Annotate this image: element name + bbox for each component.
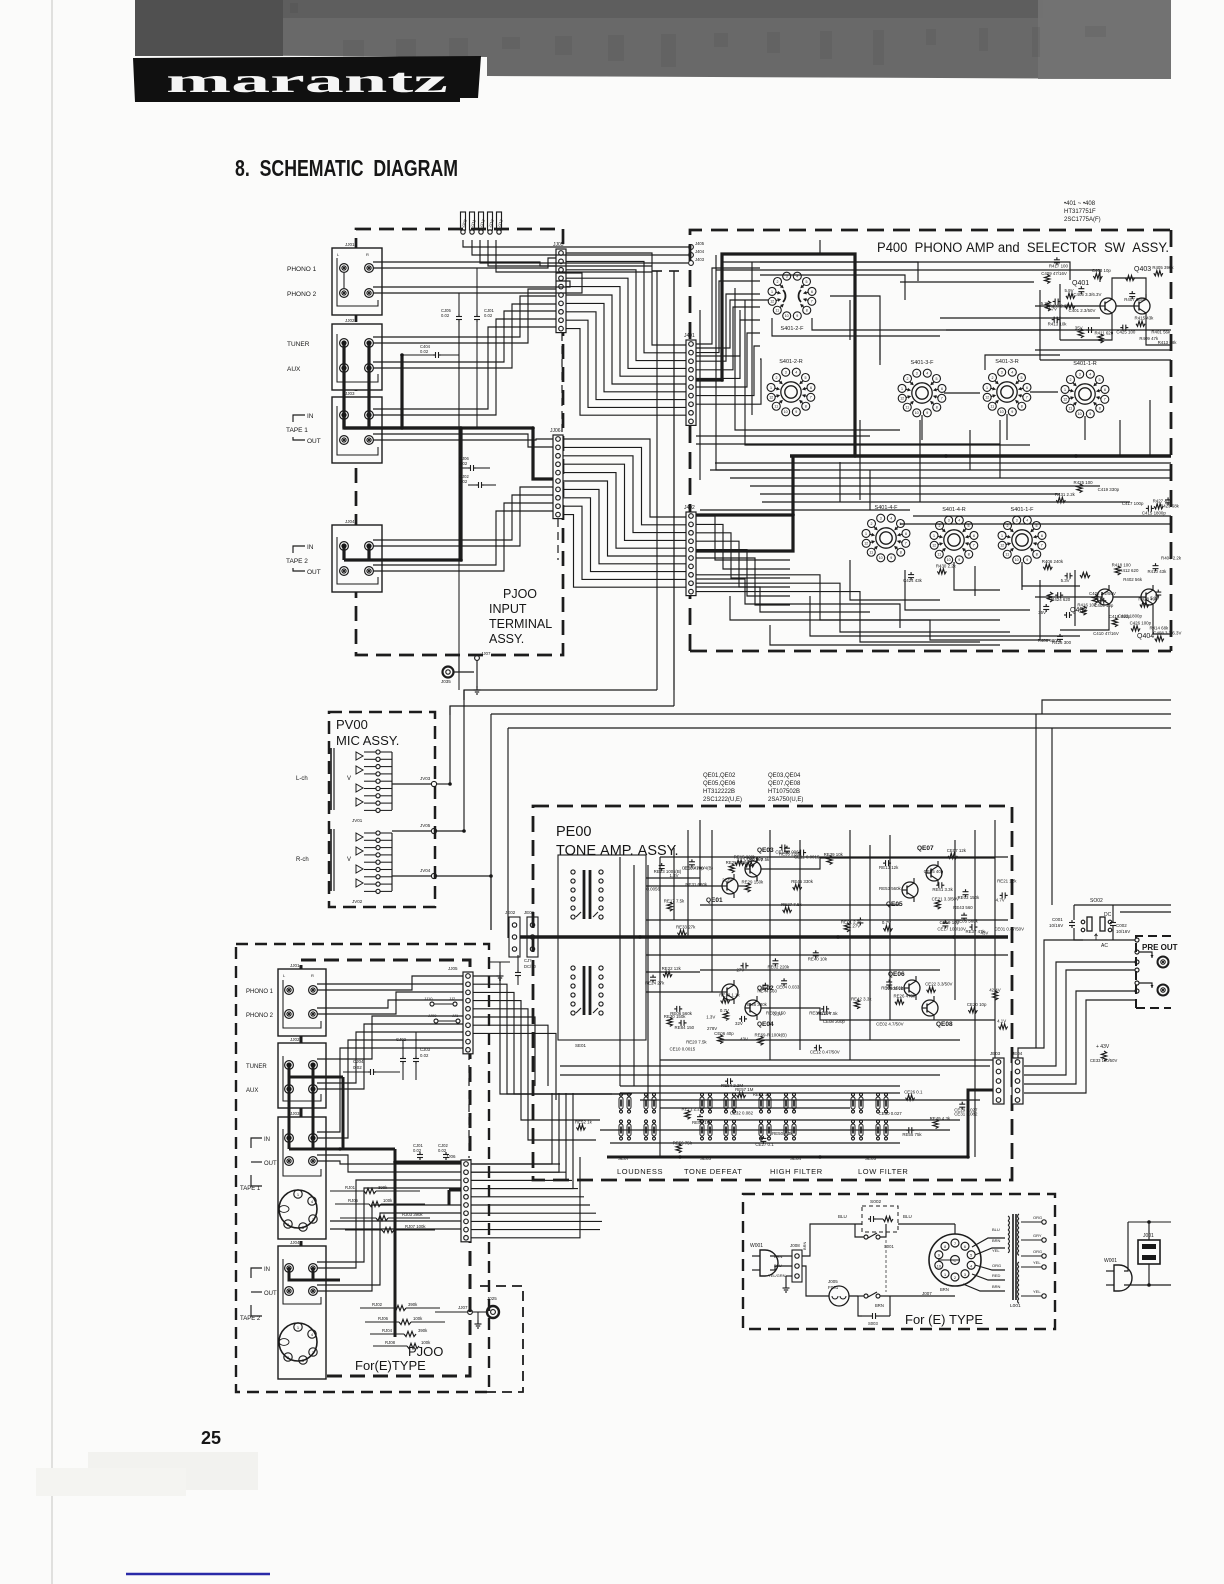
PJ00-E outer dashed box [236, 944, 489, 1392]
connector JV05a [431, 828, 436, 833]
svg-text:V: V [347, 857, 351, 863]
junction dots PJ00 [400, 353, 404, 357]
svg-text:RJ05: RJ05 [348, 1198, 359, 1203]
phono1-E jacks [285, 986, 294, 995]
svg-text:RE08 12k: RE08 12k [886, 986, 906, 991]
svg-text:JJ07: JJ07 [458, 1305, 468, 1310]
svg-text:6: 6 [973, 534, 975, 538]
small connectors JJ10 JJ2 [430, 1002, 434, 1006]
svg-text:C410 47/16V: C410 47/16V [1093, 631, 1119, 636]
svg-text:RE39 10k: RE39 10k [824, 852, 844, 857]
tone amp input block SE01 outer [558, 855, 646, 1040]
dashed link JJ05E-JJ06E [468, 1052, 470, 1158]
resistor RJ04 [404, 1331, 416, 1336]
header band mottle [290, 3, 1106, 69]
svg-text:4: 4 [958, 519, 960, 523]
svg-text:RE33 27k: RE33 27k [676, 925, 696, 930]
svg-text:4: 4 [1089, 373, 1091, 377]
svg-text:R413 68k: R413 68k [1158, 340, 1178, 345]
svg-text:JJ05: JJ05 [448, 966, 458, 971]
svg-text:1.3V: 1.3V [706, 1015, 715, 1020]
svg-text:S401-1-R: S401-1-R [1073, 361, 1097, 367]
wire lamp to cap [849, 1295, 858, 1297]
svg-text:S001: S001 [884, 1244, 894, 1249]
jack box JJ03-E [278, 1117, 326, 1239]
svg-text:QE03: QE03 [757, 847, 774, 854]
wire lattice PE00 verticals2 [646, 919, 1008, 921]
tuner-E jacks [285, 1061, 294, 1070]
svg-text:4: 4 [926, 372, 928, 376]
svg-text:MIC ASSY.: MIC ASSY. [336, 733, 399, 748]
AC plug W001 right [1114, 1265, 1132, 1291]
svg-text:CE12 0.47/50V: CE12 0.47/50V [810, 1050, 840, 1055]
svg-text:RE02 220k: RE02 220k [767, 964, 790, 969]
jack J035 [443, 667, 454, 678]
svg-text:2: 2 [954, 1276, 956, 1280]
svg-text:CE08 200p: CE08 200p [823, 1019, 846, 1024]
svg-text:TUNER: TUNER [287, 341, 310, 348]
svg-text:IN: IN [264, 1137, 270, 1143]
svg-text:RE10 1.1k: RE10 1.1k [719, 993, 740, 998]
svg-text:Q403: Q403 [1134, 266, 1151, 273]
wire net Q402 Q404 region [1035, 596, 1097, 598]
svg-text:OUT: OUT [264, 1291, 277, 1297]
phono1 jacks [340, 264, 349, 273]
svg-text:OUT: OUT [307, 438, 321, 445]
thick bus tuner-aux [344, 343, 461, 428]
tape2 out jacks [340, 567, 349, 576]
svg-text:AC: AC [1101, 943, 1108, 949]
svg-text:YEL: YEL [1033, 1260, 1041, 1265]
svg-text:P400 PHONO AMP and SELECTOR: P400 PHONO AMP and SELECTOR SW ASSY. [877, 240, 1169, 255]
switch S002 box [862, 1206, 898, 1232]
svg-text:QE04: QE04 [757, 1021, 774, 1028]
transformer L001 secondary upper [1018, 1214, 1019, 1219]
svg-text:R404 2.2k: R404 2.2k [1161, 555, 1182, 560]
svg-text:ASSY.: ASSY. [489, 632, 524, 646]
svg-text:RJ04: RJ04 [382, 1328, 393, 1333]
svg-text:7: 7 [941, 397, 943, 401]
svg-text:9: 9 [796, 314, 798, 318]
svg-text:8: 8 [1021, 405, 1023, 409]
footer blue rule [126, 1573, 270, 1576]
svg-text:11: 11 [937, 553, 941, 557]
wire midline pair to PE00 [463, 690, 465, 700]
svg-text:S401-2-F: S401-2-F [781, 326, 805, 332]
wire loop JJ02-E [283, 1056, 321, 1101]
svg-text:10/16V: 10/16V [1116, 929, 1130, 934]
svg-text:R406 240k: R406 240k [1042, 559, 1064, 564]
svg-text:RE40 10k: RE40 10k [808, 956, 828, 961]
PRE OUT jack L [1158, 957, 1169, 968]
svg-text:2SA750(U,E): 2SA750(U,E) [768, 797, 803, 803]
wire BRN lower run [900, 1295, 955, 1297]
svg-text:RE03 150k: RE03 150k [958, 895, 981, 900]
wire long vertical pair to mic area [464, 690, 657, 700]
thick bus J402 loop [696, 515, 793, 551]
tape1-E out jacks [285, 1157, 294, 1166]
svg-text:RE57 1M: RE57 1M [735, 1087, 754, 1092]
jack box JJ04 [332, 525, 382, 592]
svg-text:C424 43k: C424 43k [903, 578, 923, 583]
wire loop JJ02 [337, 334, 378, 382]
resistor RJ07 [382, 1227, 394, 1232]
switch S001 lower [864, 1294, 868, 1298]
wires selector to transformer [954, 1224, 956, 1234]
connector JV03 [431, 781, 436, 786]
wire staircase J402 bottom exits [696, 587, 870, 612]
svg-text:3: 3 [1079, 373, 1081, 377]
wire J001 top [1128, 1221, 1171, 1223]
svg-text:10: 10 [785, 314, 789, 318]
tape1 in jacks [340, 411, 349, 420]
svg-text:6: 6 [941, 387, 943, 391]
svg-text:223V: 223V [722, 878, 732, 883]
connector JJ13 [479, 212, 484, 230]
svg-text:PHONO 1: PHONO 1 [246, 989, 274, 995]
svg-text:5: 5 [1098, 378, 1100, 382]
svg-text:BRN: BRN [992, 1284, 1001, 1289]
svg-text:QE07: QE07 [917, 845, 934, 852]
transistor QE02 [722, 984, 738, 1000]
resistor RJ08 [407, 1343, 419, 1348]
svg-text:SE03: SE03 [700, 1156, 712, 1161]
thick JJ06-E link [449, 1189, 461, 1192]
svg-text:CJ?: CJ? [524, 958, 532, 963]
svg-text:RE21 12k: RE21 12k [997, 879, 1017, 884]
svg-text:GRY: GRY [1033, 1233, 1042, 1238]
svg-text:CE22 3.3/50V: CE22 3.3/50V [925, 982, 952, 987]
svg-text:JJ02: JJ02 [345, 318, 355, 323]
svg-text:9: 9 [1089, 412, 1091, 416]
rotary switch S401-3-F [913, 369, 921, 377]
svg-text:1: 1 [986, 386, 988, 390]
PV00 dashed box [329, 712, 435, 907]
svg-text:C408 3.3/6.3V: C408 3.3/6.3V [1153, 631, 1181, 636]
svg-text:100k: 100k [421, 1340, 431, 1345]
svg-text:10: 10 [1078, 412, 1082, 416]
svg-text:RE22 12k: RE22 12k [662, 966, 682, 971]
svg-text:QE07,QE08: QE07,QE08 [768, 781, 801, 787]
svg-text:CE20 10p: CE20 10p [967, 1002, 987, 1007]
svg-text:7: 7 [905, 542, 907, 546]
svg-text:V: V [347, 776, 351, 782]
svg-text:PV00: PV00 [336, 717, 368, 732]
svg-text:7: 7 [954, 1242, 956, 1246]
svg-text:ORG: ORG [1033, 1215, 1042, 1220]
connector JJ08 [461, 212, 466, 230]
svg-text:3: 3 [964, 1273, 966, 1277]
svg-text:J402: J402 [684, 505, 695, 511]
transformer output terminals [1042, 1220, 1046, 1224]
tape2 in jacks [340, 542, 349, 551]
phono2-E jacks [285, 1010, 294, 1019]
transistor QE03 [745, 861, 761, 877]
svg-text:PHONO 2: PHONO 2 [246, 1013, 274, 1019]
small connectors JJ09 JJ1 [434, 1019, 438, 1023]
wire JJ07 drop [458, 655, 460, 672]
header gray band right shade [1038, 0, 1171, 79]
scan shading bottom left [88, 1452, 258, 1490]
transformer SE01 lower [571, 966, 575, 970]
svg-text:JJ04: JJ04 [290, 1240, 300, 1245]
PJ00-E inner dashed box [301, 960, 470, 1376]
svg-text:R: R [366, 252, 369, 257]
tape2-E out jacks [285, 1287, 294, 1296]
svg-text:R-ch: R-ch [296, 857, 309, 863]
svg-text:IN: IN [264, 1267, 270, 1273]
svg-text:CE10 0.0015: CE10 0.0015 [670, 1047, 696, 1052]
svg-text:OUT: OUT [307, 569, 321, 576]
svg-text:CE31 0.082: CE31 0.082 [954, 1112, 978, 1117]
wire BLU top [841, 1223, 862, 1225]
svg-text:JE04: JE04 [1012, 1051, 1023, 1056]
hop marks long verticals [656, 271, 658, 690]
ground at JJ07 [476, 660, 478, 688]
svg-text:RE24 27k: RE24 27k [645, 981, 665, 986]
svg-text:•401 ~ •408: •401 ~ •408 [1064, 201, 1096, 207]
svg-text:HT317751F: HT317751F [1064, 209, 1096, 215]
page left edge scan line [51, 0, 53, 1584]
wire bundle JJ06 to J402 [563, 439, 686, 517]
svg-text:YEL/GRN: YEL/GRN [768, 1273, 786, 1278]
svg-text:S401-3-R: S401-3-R [995, 359, 1019, 365]
svg-text:4: 4 [1026, 519, 1028, 523]
svg-text:S401-1-F: S401-1-F [1011, 507, 1035, 513]
wire lattice P400 lower [850, 560, 940, 600]
svg-text:10: 10 [879, 556, 883, 560]
wire lattice P400 mid [696, 435, 870, 437]
svg-text:5: 5 [1020, 376, 1022, 380]
AC plug W001 [760, 1250, 778, 1276]
svg-text:RE25 470k: RE25 470k [726, 860, 749, 865]
svg-text:2SC1775A(F): 2SC1775A(F) [1064, 217, 1101, 223]
svg-text:RED: RED [992, 1273, 1001, 1278]
svg-text:J405: J405 [695, 241, 705, 246]
svg-text:4: 4 [970, 1264, 972, 1268]
svg-text:0.02: 0.02 [353, 1065, 362, 1070]
svg-text:HT312222B: HT312222B [703, 789, 735, 795]
svg-text:1: 1 [865, 532, 867, 536]
svg-text:CE33 100/50V: CE33 100/50V [1090, 1058, 1117, 1063]
svg-text:JV02: JV02 [352, 899, 363, 904]
rotary switch S401-1-F [1013, 516, 1021, 524]
svg-text:R405 390k: R405 390k [1152, 265, 1174, 270]
svg-text:RE53 560k: RE53 560k [879, 886, 902, 891]
transistor Q401 [1100, 298, 1116, 314]
svg-text:L001: L001 [1010, 1303, 1021, 1309]
svg-text:0.02: 0.02 [459, 479, 468, 484]
svg-text:BLU: BLU [838, 1214, 847, 1219]
svg-text:7: 7 [810, 396, 812, 400]
svg-text:8: 8 [1099, 407, 1101, 411]
connector JJ05-E [463, 972, 473, 1054]
svg-text:TAPE 1: TAPE 1 [240, 1186, 261, 1192]
connector JJ07 [475, 656, 480, 661]
svg-text:1: 1 [944, 1273, 946, 1277]
svg-text:IN: IN [307, 413, 314, 420]
svg-text:3: 3 [785, 371, 787, 375]
svg-text:SE04: SE04 [790, 1156, 802, 1161]
svg-text:8: 8 [936, 406, 938, 410]
svg-text:8. SCHEMATIC DIAGRAM: 8. SCHEMATIC DIAGRAM [235, 155, 458, 181]
connector J001 [1138, 1240, 1160, 1264]
svg-text:JJ02: JJ02 [290, 1037, 300, 1042]
svg-text:R410 43k: R410 43k [1148, 569, 1168, 574]
svg-text:3: 3 [1016, 519, 1018, 523]
svg-text:QE01: QE01 [706, 897, 723, 904]
svg-text:ORG: ORG [1033, 1249, 1042, 1254]
transistor QE06 [904, 980, 920, 996]
svg-text:SE05: SE05 [865, 1156, 877, 1161]
svg-text:1: 1 [771, 290, 773, 294]
svg-text:1: 1 [770, 386, 772, 390]
svg-text:RJ08: RJ08 [385, 1340, 396, 1345]
svg-text:RE36 220k: RE36 220k [809, 1010, 832, 1015]
svg-text:3: 3 [916, 372, 918, 376]
thick bus J401 loop [696, 254, 855, 456]
switch S001 upper [864, 1235, 868, 1239]
thick bus tape-E [288, 1138, 291, 1149]
svg-text:JJ01: JJ01 [290, 963, 300, 968]
svg-text:JV04: JV04 [420, 868, 431, 873]
P400 dashed box [690, 230, 1171, 651]
transformer L001 secondary lower [1018, 1262, 1019, 1267]
svg-text:CJ03: CJ03 [420, 1047, 431, 1052]
svg-text:RE42 3.3k: RE42 3.3k [851, 996, 872, 1001]
wire loop JJ04 [337, 537, 378, 584]
svg-text:2: 2 [777, 280, 779, 284]
svg-text:11: 11 [774, 405, 778, 409]
wire lattice PE00 horizontals [646, 877, 700, 879]
jack box JJ03 [332, 397, 382, 463]
svg-text:RE27 7.5k: RE27 7.5k [781, 902, 802, 907]
svg-text:BRN: BRN [802, 1241, 807, 1250]
label TAPE2 E [251, 1268, 262, 1278]
svg-text:BLU: BLU [903, 1214, 912, 1219]
svg-text:5.3V: 5.3V [1061, 578, 1070, 583]
transistor QE01 [722, 878, 738, 894]
PJ00 input terminal assy dashed box [356, 229, 563, 655]
svg-text:9: 9 [958, 558, 960, 562]
svg-text:10: 10 [1000, 410, 1004, 414]
svg-text:4: 4 [795, 371, 797, 375]
transistor Q403 [1134, 298, 1150, 314]
svg-text:CE17 100/10V: CE17 100/10V [937, 926, 966, 931]
svg-text:RE29 150k: RE29 150k [742, 880, 765, 885]
svg-text:9: 9 [795, 410, 797, 414]
capacitor S003 [870, 1315, 873, 1317]
svg-text:QE01,QE02: QE01,QE02 [703, 773, 736, 779]
svg-text:27V: 27V [852, 923, 860, 928]
svg-text:J401: J401 [684, 333, 695, 339]
svg-text:RJ07 100k: RJ07 100k [405, 1224, 426, 1229]
svg-text:7: 7 [1104, 398, 1106, 402]
svg-text:TAPE 2: TAPE 2 [240, 1316, 261, 1322]
label TAPE 1 IN/OUT [293, 415, 305, 422]
svg-text:AUX: AUX [287, 366, 301, 373]
svg-text:SE07: SE07 [618, 1156, 630, 1161]
svg-text:12: 12 [770, 300, 774, 304]
svg-text:TUNER: TUNER [246, 1064, 267, 1070]
svg-text:2: 2 [907, 377, 909, 381]
jack box JJ01-E [278, 969, 326, 1036]
svg-text:RE15 220k: RE15 220k [734, 855, 757, 860]
wire SO02 top line [1074, 904, 1171, 906]
marantz logo box [133, 56, 481, 102]
transformer L001 primary [1008, 1216, 1009, 1221]
svg-text:W001: W001 [1104, 1258, 1117, 1264]
svg-text:10: 10 [915, 411, 919, 415]
svg-text:12: 12 [769, 396, 773, 400]
transformer SE01 upper [571, 870, 575, 874]
jack box JJ02-E [278, 1043, 326, 1108]
slide switch SE03 tone defeat [700, 1097, 704, 1109]
svg-text:390k: 390k [418, 1328, 428, 1333]
svg-text:R427 43k: R427 43k [1153, 498, 1173, 503]
wire bundle jacks-E to JJ05-E [317, 976, 463, 990]
header gray band [135, 0, 1171, 79]
svg-text:JE01: JE01 [524, 910, 535, 915]
svg-text:10: 10 [784, 410, 788, 414]
svg-text:QE03,QE04: QE03,QE04 [768, 773, 801, 779]
thick bus tape2 vertical [344, 428, 461, 560]
svg-text:R411 620: R411 620 [1094, 330, 1113, 335]
thick bus tuner-E [288, 1065, 291, 1149]
svg-text:8: 8 [1036, 553, 1038, 557]
rotary switch S401-4-R [945, 516, 953, 524]
svg-text:Q401: Q401 [1072, 280, 1089, 287]
mic jack group JV01 [330, 748, 332, 810]
wire net Q401 Q403 region [1035, 305, 1100, 307]
svg-text:6: 6 [905, 532, 907, 536]
wire bundle JJ05 to J401 [566, 253, 686, 345]
wire middle band extensions [500, 1085, 620, 1087]
svg-text:PHONO 1: PHONO 1 [287, 266, 317, 273]
svg-text:8: 8 [944, 1245, 946, 1249]
svg-text:HT107502B: HT107502B [768, 789, 800, 795]
svg-text:RE69-R 100k(B): RE69-R 100k(B) [754, 1033, 787, 1038]
wire lattice J401 fanout [696, 268, 760, 344]
label TAPE1 E [251, 1138, 262, 1148]
svg-text:RE50 4.3k: RE50 4.3k [772, 1131, 793, 1136]
svg-text:2SC1222(U,E): 2SC1222(U,E) [703, 797, 742, 803]
slide switch SE04 high filter a [759, 1097, 763, 1109]
svg-text:RE44 560: RE44 560 [757, 989, 777, 994]
svg-text:CE02 4.7/50V: CE02 4.7/50V [876, 1022, 903, 1027]
connector JE04 [1012, 1058, 1023, 1104]
svg-text:C418 100p: C418 100p [1109, 614, 1131, 619]
DIN connector JJ04-E [279, 1323, 317, 1361]
svg-text:RJ06: RJ06 [378, 1316, 389, 1321]
wire BRN riser [802, 1224, 841, 1256]
svg-text:CE05 40p: CE05 40p [924, 869, 944, 874]
svg-text:J025: J025 [487, 1296, 497, 1301]
svg-text:11: 11 [1068, 407, 1072, 411]
svg-text:5: 5 [935, 377, 937, 381]
svg-text:6: 6 [1041, 534, 1043, 538]
svg-text:8: 8 [968, 553, 970, 557]
svg-text:LOW FILTER: LOW FILTER [858, 1167, 908, 1176]
svg-text:11: 11 [990, 405, 994, 409]
svg-text:3: 3 [948, 519, 950, 523]
svg-text:12: 12 [932, 544, 936, 548]
connector JE01 [527, 917, 538, 957]
connector JE03 [993, 1058, 1004, 1104]
aux jacks [340, 364, 349, 373]
transistor Q404 [1141, 589, 1157, 605]
svg-text:RE30 150k: RE30 150k [664, 1014, 687, 1019]
